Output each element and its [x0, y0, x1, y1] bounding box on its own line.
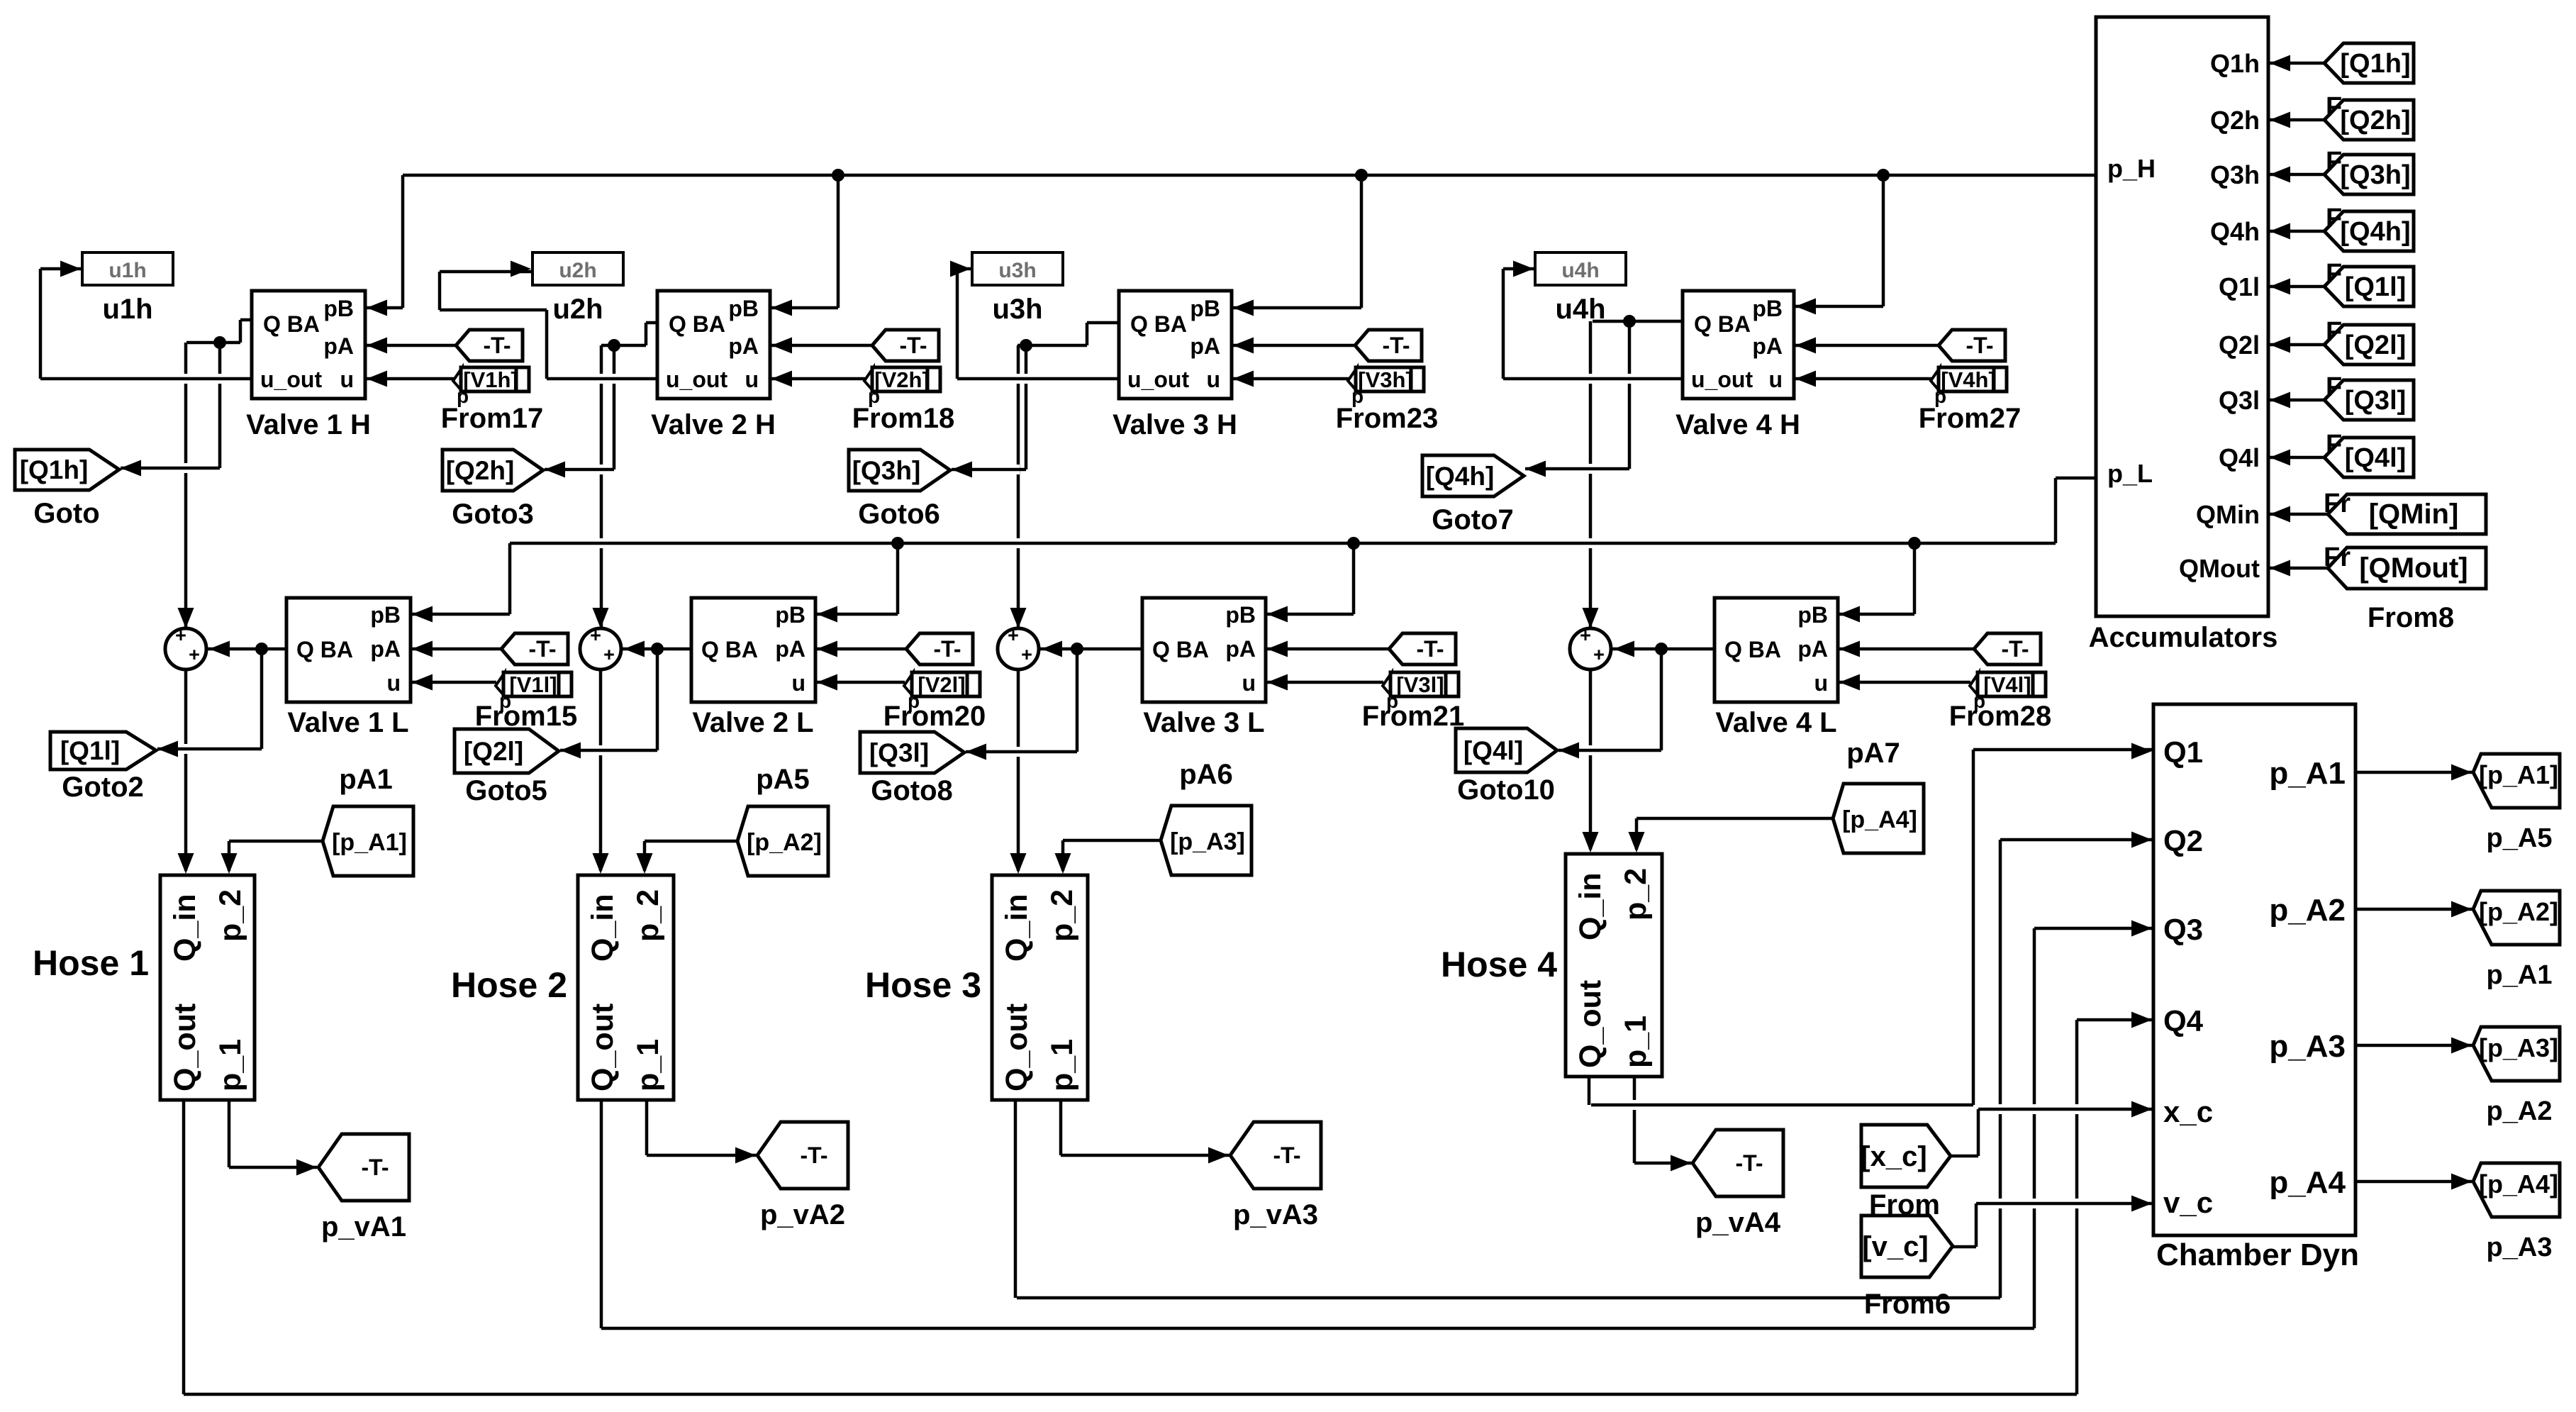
svg-text:[Q4l]: [Q4l]: [1463, 736, 1523, 765]
svg-text:[Q4h]: [Q4h]: [1426, 462, 1495, 491]
svg-text:p_1: p_1: [1045, 1039, 1079, 1091]
svg-text:[p_A4]: [p_A4]: [1842, 806, 1917, 833]
svg-text:u3h: u3h: [998, 259, 1036, 282]
svg-text:-T-: -T-: [899, 333, 927, 358]
svg-text:-T-: -T-: [1735, 1150, 1763, 1176]
svg-text:Valve 2 L: Valve 2 L: [692, 707, 813, 738]
svg-text:u4h: u4h: [1561, 259, 1599, 282]
svg-text:Q3: Q3: [2163, 913, 2203, 946]
svg-text:Goto7: Goto7: [1432, 504, 1514, 535]
svg-text:+: +: [590, 625, 601, 646]
svg-text:pA: pA: [1190, 333, 1220, 359]
svg-text:pA: pA: [1752, 333, 1783, 359]
svg-text:p_2: p_2: [631, 889, 665, 942]
svg-text:Chamber Dyn: Chamber Dyn: [2156, 1238, 2359, 1272]
svg-text:+: +: [1021, 644, 1032, 665]
svg-text:p_vA4: p_vA4: [1695, 1207, 1781, 1238]
svg-text:[Q1l]: [Q1l]: [60, 736, 120, 765]
svg-text:+: +: [189, 644, 200, 665]
svg-text:Q2h: Q2h: [2210, 106, 2260, 135]
svg-text:F: F: [2326, 317, 2342, 347]
svg-text:[Q3h]: [Q3h]: [2340, 160, 2410, 190]
svg-text:pA1: pA1: [339, 764, 393, 795]
svg-text:pA6: pA6: [1179, 759, 1233, 790]
svg-text:Fr: Fr: [2324, 543, 2351, 572]
svg-text:Q4: Q4: [2163, 1004, 2204, 1038]
svg-text:From27: From27: [1919, 403, 2022, 434]
svg-text:From18: From18: [852, 403, 955, 434]
svg-text:[p_A3]: [p_A3]: [2479, 1033, 2558, 1062]
svg-text:[V3h]: [V3h]: [1358, 367, 1413, 392]
svg-text:Hose 2: Hose 2: [451, 965, 567, 1005]
svg-text:Goto6: Goto6: [858, 499, 940, 530]
svg-text:p_vA2: p_vA2: [760, 1199, 845, 1230]
svg-text:p_2: p_2: [1619, 868, 1653, 921]
svg-text:pB: pB: [1752, 296, 1783, 321]
svg-text:u: u: [340, 367, 354, 392]
svg-text:[Q1h]: [Q1h]: [20, 455, 89, 484]
svg-text:+: +: [603, 644, 615, 665]
svg-text:Valve 3 L: Valve 3 L: [1143, 707, 1264, 738]
svg-text:[V4l]: [V4l]: [1983, 672, 2031, 697]
svg-text:Valve 3 H: Valve 3 H: [1113, 409, 1237, 440]
svg-text:F: F: [2326, 430, 2342, 460]
svg-text:Valve 4 L: Valve 4 L: [1715, 707, 1836, 738]
svg-text:p_vA3: p_vA3: [1233, 1199, 1318, 1230]
svg-text:pA: pA: [323, 333, 354, 359]
svg-text:Q3l: Q3l: [2219, 386, 2260, 415]
svg-text:u_out: u_out: [1127, 367, 1189, 392]
svg-text:[Q4l]: [Q4l]: [2345, 443, 2407, 473]
svg-text:From21: From21: [1362, 701, 1465, 732]
svg-text:[QMout]: [QMout]: [2359, 552, 2468, 584]
svg-text:u: u: [386, 670, 401, 696]
svg-text:[V2h]: [V2h]: [874, 367, 930, 392]
svg-text:From20: From20: [883, 701, 986, 732]
svg-text:Valve 1 H: Valve 1 H: [246, 409, 371, 440]
svg-text:-T-: -T-: [1416, 636, 1444, 662]
svg-text:Q_in: Q_in: [1000, 894, 1034, 962]
svg-text:[p_A2]: [p_A2]: [2479, 897, 2558, 926]
svg-text:pA: pA: [728, 333, 759, 359]
svg-text:x_c: x_c: [2163, 1095, 2213, 1128]
svg-text:Q_in: Q_in: [168, 894, 202, 962]
svg-text:u: u: [1242, 670, 1256, 696]
svg-text:Q_in: Q_in: [586, 894, 620, 962]
svg-text:Goto8: Goto8: [871, 775, 953, 806]
svg-text:Hose 1: Hose 1: [33, 943, 149, 983]
svg-text:[Q3h]: [Q3h]: [852, 456, 921, 485]
svg-text:[p_A3]: [p_A3]: [1170, 828, 1245, 855]
svg-text:p_A1: p_A1: [2269, 756, 2346, 791]
svg-text:-T-: -T-: [933, 636, 961, 662]
svg-text:From28: From28: [1949, 701, 2052, 732]
svg-text:Q2l: Q2l: [2219, 330, 2260, 360]
svg-text:Q4l: Q4l: [2219, 443, 2260, 472]
svg-text:+: +: [1593, 644, 1605, 665]
svg-text:Q1: Q1: [2163, 735, 2203, 769]
svg-text:QMin: QMin: [2196, 500, 2260, 529]
svg-text:-T-: -T-: [1273, 1143, 1300, 1168]
svg-text:p_A3: p_A3: [2269, 1029, 2346, 1064]
svg-text:-T-: -T-: [528, 636, 556, 662]
svg-text:[Q1h]: [Q1h]: [2340, 49, 2410, 79]
svg-text:QMout: QMout: [2179, 554, 2260, 583]
svg-text:Hose 4: Hose 4: [1441, 945, 1557, 984]
svg-text:pA: pA: [775, 636, 805, 662]
svg-text:F: F: [2326, 204, 2342, 233]
svg-text:pA5: pA5: [756, 764, 810, 795]
svg-text:Q BA: Q BA: [701, 637, 758, 662]
svg-text:u: u: [1814, 670, 1828, 696]
svg-text:[p_A1]: [p_A1]: [332, 829, 407, 856]
svg-text:Valve 2 H: Valve 2 H: [651, 409, 776, 440]
svg-text:-T-: -T-: [1966, 333, 1993, 358]
svg-text:p_L: p_L: [2107, 459, 2153, 488]
svg-text:Q4h: Q4h: [2210, 217, 2260, 246]
svg-text:p_A2: p_A2: [2269, 893, 2346, 928]
svg-text:F: F: [2326, 259, 2342, 289]
svg-text:u3h: u3h: [992, 294, 1042, 325]
svg-text:p_H: p_H: [2107, 154, 2156, 183]
svg-text:-T-: -T-: [361, 1155, 389, 1180]
svg-text:Q3h: Q3h: [2210, 160, 2260, 189]
svg-text:Q1h: Q1h: [2210, 49, 2260, 78]
svg-text:Q BA: Q BA: [1724, 637, 1781, 662]
svg-text:Hose 3: Hose 3: [865, 965, 981, 1005]
svg-text:Q BA: Q BA: [1130, 311, 1187, 337]
svg-text:p_A3: p_A3: [2487, 1233, 2553, 1262]
svg-text:[Q4h]: [Q4h]: [2340, 217, 2410, 247]
svg-text:From8: From8: [2368, 602, 2454, 633]
svg-text:p_vA1: p_vA1: [321, 1211, 406, 1243]
svg-text:+: +: [175, 625, 186, 646]
svg-text:Q1l: Q1l: [2219, 272, 2260, 301]
svg-text:pB: pB: [323, 296, 354, 321]
svg-text:F: F: [2326, 372, 2342, 402]
svg-text:Goto10: Goto10: [1457, 774, 1555, 806]
svg-text:-T-: -T-: [1382, 333, 1410, 358]
svg-text:From6: From6: [1864, 1289, 1951, 1320]
svg-text:[QMin]: [QMin]: [2369, 499, 2459, 530]
svg-text:[p_A2]: [p_A2]: [747, 829, 822, 856]
svg-text:p_A4: p_A4: [2269, 1165, 2346, 1200]
svg-text:[p_A4]: [p_A4]: [2479, 1169, 2558, 1199]
svg-text:[V2l]: [V2l]: [918, 672, 965, 697]
svg-text:F: F: [2326, 147, 2342, 177]
svg-text:u1h: u1h: [102, 294, 152, 325]
svg-text:v_c: v_c: [2163, 1186, 2213, 1219]
svg-text:p_A1: p_A1: [2487, 960, 2553, 990]
svg-text:[x_c]: [x_c]: [1861, 1141, 1927, 1172]
svg-text:p_2: p_2: [213, 889, 247, 942]
svg-text:Fr: Fr: [2324, 489, 2351, 518]
svg-text:Q BA: Q BA: [1694, 311, 1751, 337]
svg-text:Q BA: Q BA: [1152, 637, 1209, 662]
svg-text:[Q3l]: [Q3l]: [869, 738, 929, 767]
svg-text:From23: From23: [1336, 403, 1439, 434]
svg-text:u4h: u4h: [1555, 294, 1605, 325]
svg-text:[p_A1]: [p_A1]: [2479, 760, 2558, 789]
svg-text:Valve 4 H: Valve 4 H: [1675, 409, 1800, 440]
svg-text:Goto3: Goto3: [452, 499, 534, 530]
svg-text:pA7: pA7: [1846, 738, 1900, 769]
svg-text:-T-: -T-: [2001, 636, 2029, 662]
svg-text:pB: pB: [775, 602, 805, 628]
svg-text:Q_out: Q_out: [168, 1004, 202, 1091]
svg-text:pA: pA: [1225, 636, 1256, 662]
svg-text:p_1: p_1: [631, 1039, 665, 1091]
svg-text:Q_in: Q_in: [1573, 872, 1607, 940]
svg-text:p_1: p_1: [1619, 1016, 1653, 1068]
svg-text:[Q3l]: [Q3l]: [2345, 386, 2407, 416]
svg-text:pA: pA: [370, 636, 401, 662]
svg-text:p_A2: p_A2: [2487, 1096, 2553, 1126]
svg-text:+: +: [1580, 625, 1591, 646]
svg-text:pA: pA: [1797, 636, 1828, 662]
svg-text:Q BA: Q BA: [669, 311, 725, 337]
svg-text:pB: pB: [728, 296, 759, 321]
svg-text:[V1h]: [V1h]: [463, 367, 518, 392]
svg-text:[Q2l]: [Q2l]: [2345, 330, 2407, 360]
svg-text:[V1l]: [V1l]: [509, 672, 557, 697]
svg-text:pB: pB: [370, 602, 401, 628]
svg-text:u2h: u2h: [552, 294, 603, 325]
svg-text:u1h: u1h: [108, 259, 146, 282]
svg-text:F: F: [2326, 92, 2342, 122]
svg-text:u_out: u_out: [1691, 367, 1753, 392]
svg-text:[V4h]: [V4h]: [1941, 367, 1996, 392]
svg-text:u_out: u_out: [260, 367, 322, 392]
svg-text:u: u: [745, 367, 759, 392]
svg-text:Accumulators: Accumulators: [2089, 622, 2278, 653]
svg-text:Valve 1 L: Valve 1 L: [287, 707, 408, 738]
svg-text:From15: From15: [475, 701, 578, 732]
svg-text:+: +: [1008, 625, 1019, 646]
svg-text:[Q2h]: [Q2h]: [446, 456, 515, 485]
svg-text:pB: pB: [1225, 602, 1256, 628]
svg-text:From17: From17: [441, 403, 544, 434]
svg-text:-T-: -T-: [800, 1143, 827, 1168]
svg-text:Q_out: Q_out: [1000, 1004, 1034, 1091]
svg-text:Goto: Goto: [33, 498, 99, 529]
svg-text:u: u: [1206, 367, 1220, 392]
svg-text:u2h: u2h: [559, 259, 596, 282]
svg-text:p_2: p_2: [1045, 889, 1079, 942]
svg-text:[Q2h]: [Q2h]: [2340, 106, 2410, 135]
svg-text:[Q2l]: [Q2l]: [464, 737, 523, 766]
svg-text:p_A5: p_A5: [2487, 823, 2553, 853]
svg-text:[V3l]: [V3l]: [1396, 672, 1444, 697]
svg-text:Q_out: Q_out: [1573, 980, 1607, 1068]
svg-text:p_1: p_1: [213, 1039, 247, 1091]
svg-text:Goto5: Goto5: [465, 775, 547, 806]
svg-text:u: u: [1768, 367, 1783, 392]
svg-text:Q2: Q2: [2163, 824, 2203, 857]
svg-text:Q BA: Q BA: [263, 311, 320, 337]
svg-text:pB: pB: [1190, 296, 1220, 321]
svg-text:Q_out: Q_out: [586, 1004, 620, 1091]
svg-text:-T-: -T-: [483, 333, 511, 358]
svg-text:u_out: u_out: [666, 367, 727, 392]
svg-text:u: u: [791, 670, 805, 696]
svg-text:Q BA: Q BA: [296, 637, 353, 662]
svg-text:[Q1l]: [Q1l]: [2345, 272, 2407, 302]
svg-text:pB: pB: [1797, 602, 1828, 628]
svg-text:Goto2: Goto2: [62, 772, 144, 803]
svg-text:[v_c]: [v_c]: [1862, 1231, 1928, 1262]
